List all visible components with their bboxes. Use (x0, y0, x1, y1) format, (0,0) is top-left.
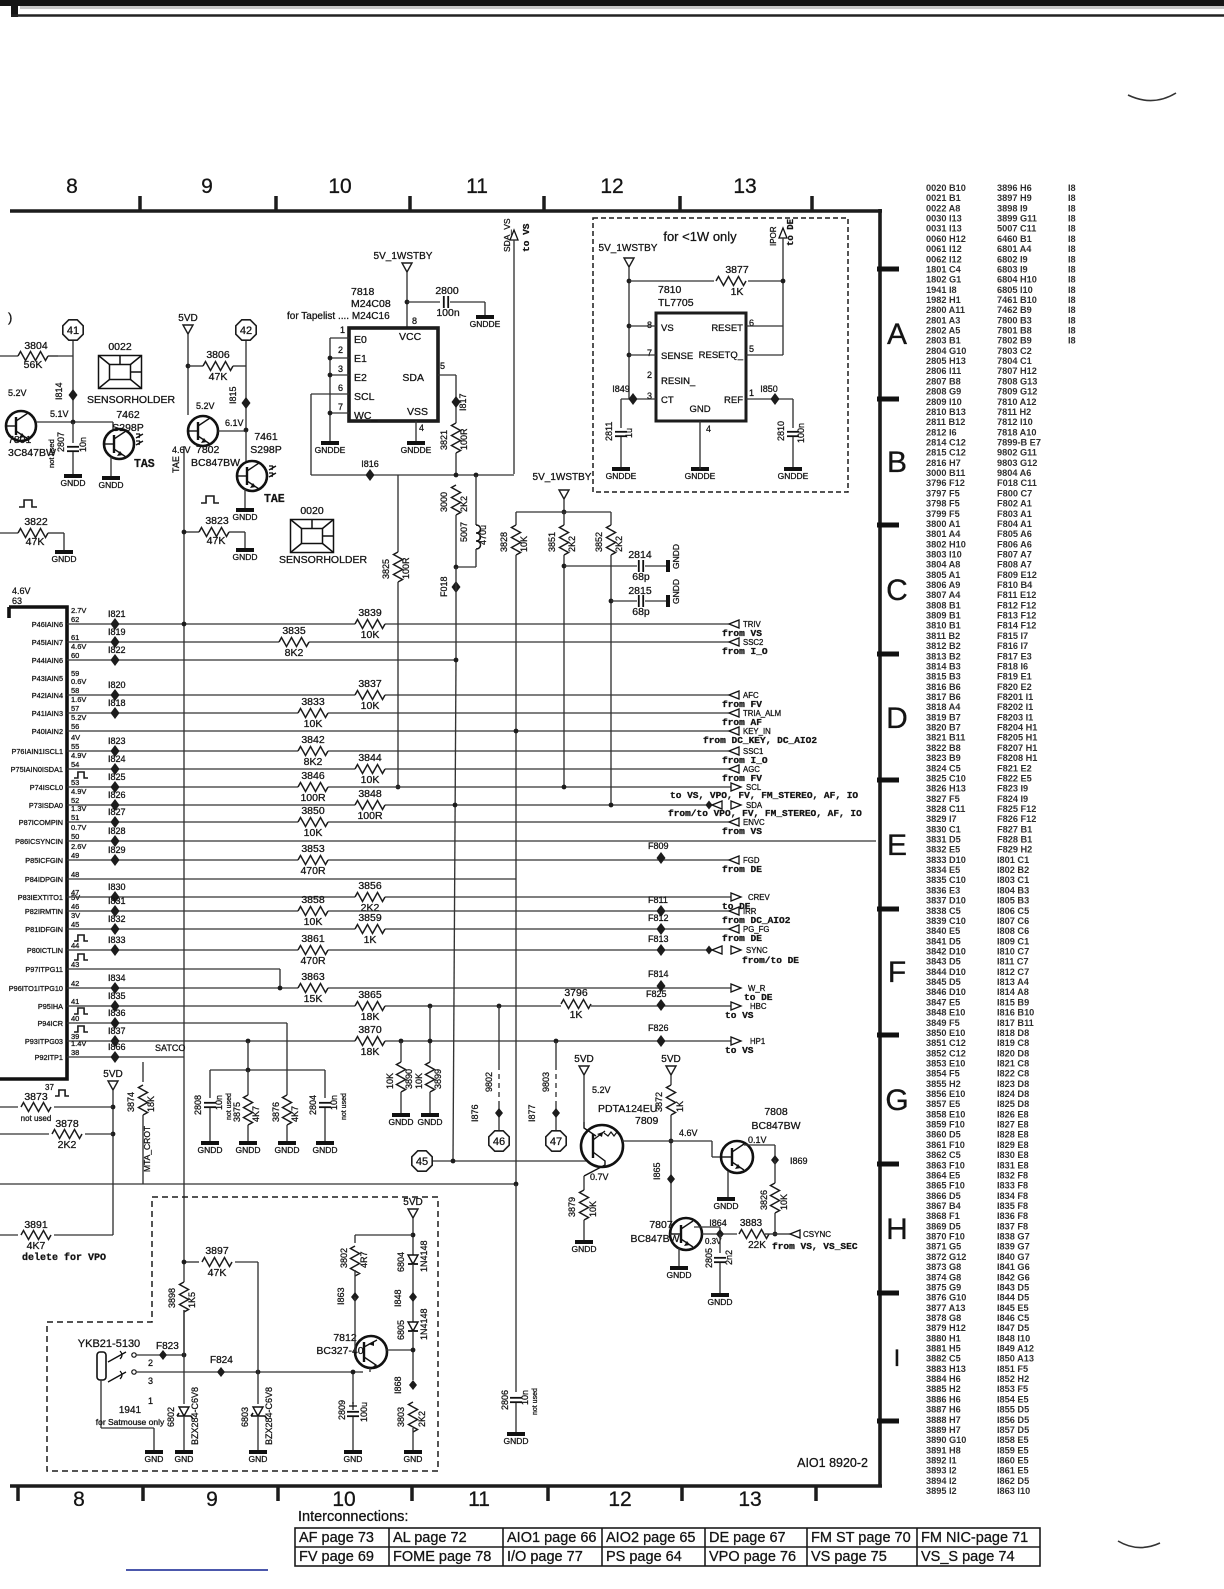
ground GND 6803 (249, 1450, 267, 1454)
svg-text:to VS: to VS (521, 223, 532, 252)
svg-text:GNDD: GNDD (235, 1145, 260, 1155)
svg-text:6: 6 (338, 383, 343, 393)
svg-text:0.7V: 0.7V (71, 823, 86, 832)
svg-text:TAE: TAE (264, 493, 285, 506)
svg-text:8K2: 8K2 (304, 756, 323, 768)
svg-text:1K: 1K (570, 1009, 583, 1021)
ground GNDD TAS (102, 476, 120, 480)
svg-text:BC847BW: BC847BW (191, 457, 240, 469)
ground GNDD 7808 (717, 1197, 735, 1201)
wire pin39 HP1 (67, 1040, 731, 1042)
svg-text:P82IRMTIN: P82IRMTIN (25, 907, 63, 916)
svg-text:FM ST page 70: FM ST page 70 (811, 1530, 911, 1546)
svg-text:5VD: 5VD (403, 1197, 422, 1208)
ground GNDD 2815 (666, 595, 670, 607)
svg-text:22K: 22K (748, 1240, 766, 1251)
svg-text:RESETQ_: RESETQ_ (699, 350, 744, 361)
svg-text:1.6V: 1.6V (71, 695, 86, 704)
svg-text:3851: 3851 (547, 532, 557, 552)
resistor 3826 10K (774, 1160, 776, 1183)
svg-text:S298P: S298P (250, 444, 282, 456)
svg-text:4K7: 4K7 (290, 1106, 300, 1122)
ground GNDD 2804 (316, 1141, 334, 1145)
ruler tick (542, 196, 546, 211)
svg-text:56: 56 (71, 722, 79, 731)
zener 6802 BZX284-C6V8 (179, 1407, 189, 1416)
resistor 3821 100R (451, 423, 462, 453)
arrow ENVC from VS (729, 818, 739, 826)
wire pin55 SSC1 (67, 750, 729, 752)
resistor 3844 10K (355, 764, 385, 775)
svg-text:I864: I864 (709, 1218, 727, 1228)
resistor 3823 47K (184, 531, 199, 533)
svg-text:E1: E1 (354, 353, 367, 365)
inductor 5007 470u (475, 475, 477, 525)
wire 3851 drop (563, 555, 565, 785)
svg-text:REF: REF (724, 395, 743, 406)
svg-text:4: 4 (419, 423, 424, 433)
svg-text:2804: 2804 (308, 1095, 318, 1115)
svg-text:from/to DE: from/to DE (742, 955, 799, 966)
svg-text:P44IAIN6: P44IAIN6 (32, 656, 63, 665)
svg-text:not used: not used (532, 1388, 539, 1415)
svg-text:2815: 2815 (628, 585, 652, 597)
svg-text:4V: 4V (71, 733, 80, 742)
arrow TRIV from VS (729, 620, 739, 628)
svg-text:12: 12 (600, 175, 623, 198)
svg-text:I815: I815 (228, 386, 238, 404)
svg-text:6803: 6803 (240, 1407, 250, 1427)
svg-text:to VS: to VS (725, 1045, 754, 1056)
svg-text:2808: 2808 (193, 1095, 203, 1115)
svg-text:2n2: 2n2 (724, 1250, 734, 1265)
svg-text:I868: I868 (393, 1376, 403, 1394)
svg-text:P87ICOMPIN: P87ICOMPIN (19, 818, 63, 827)
svg-text:4K7: 4K7 (27, 1240, 46, 1252)
power 5VD top (183, 325, 193, 334)
svg-text:68p: 68p (632, 571, 650, 583)
svg-text:from DE: from DE (722, 933, 762, 944)
svg-text:3: 3 (148, 1376, 153, 1386)
svg-text:F814: F814 (648, 969, 669, 979)
cross reference list (926, 183, 1076, 1496)
squiggle mark top right (1128, 93, 1176, 101)
svg-text:4.6V: 4.6V (172, 445, 191, 455)
svg-text:F813: F813 (648, 934, 669, 944)
svg-text:3825: 3825 (381, 559, 391, 579)
svg-text:100n: 100n (436, 307, 460, 319)
svg-text:38: 38 (71, 1048, 79, 1057)
svg-text:I836: I836 (108, 1008, 126, 1018)
svg-text:from DE: from DE (722, 864, 762, 875)
svg-text:4.6V: 4.6V (71, 642, 86, 651)
ground GND jack (145, 1450, 163, 1454)
svg-text:3865: 3865 (358, 989, 382, 1001)
svg-text:I835: I835 (108, 991, 126, 1001)
svg-text:7802: 7802 (196, 444, 220, 456)
svg-text:2810: 2810 (776, 421, 786, 441)
svg-text:3844: 3844 (358, 752, 382, 764)
capacitor 2815 68p (611, 600, 637, 602)
ruler tick (141, 1486, 145, 1501)
svg-text:2807: 2807 (56, 432, 66, 452)
svg-text:10: 10 (332, 1488, 355, 1511)
resistor 3856 2K2 (355, 892, 385, 903)
wire node42 drop (245, 341, 247, 430)
svg-text:GND: GND (404, 1454, 423, 1464)
resistor 3875 4K7 (247, 1070, 249, 1095)
arrow KEY_IN from DC_KEY DC_AIO2 (729, 727, 739, 735)
wire pin54 AGC (67, 768, 729, 770)
wire pin47 CREV (67, 896, 731, 898)
svg-text:SYNC: SYNC (746, 946, 768, 955)
svg-text:I849: I849 (612, 384, 630, 394)
svg-text:I834: I834 (108, 973, 126, 983)
arrow HBC to VS (731, 1002, 741, 1010)
svg-text:GND: GND (175, 1454, 194, 1464)
svg-text:P73ISDA0: P73ISDA0 (29, 801, 63, 810)
svg-text:470u: 470u (478, 525, 488, 545)
svg-text:9803: 9803 (541, 1072, 551, 1092)
grid row tick (877, 1033, 899, 1038)
resistor 3861 470R (298, 945, 328, 956)
svg-text:10K: 10K (304, 827, 323, 839)
svg-text:63: 63 (12, 596, 22, 606)
svg-text:10K: 10K (588, 1201, 598, 1217)
ground GNDDE 2800 (476, 315, 494, 319)
svg-text:5.2V: 5.2V (592, 1085, 611, 1095)
svg-text:I825: I825 (108, 772, 126, 782)
svg-text:to DE: to DE (786, 218, 796, 246)
wire 3828 drop (515, 555, 517, 1184)
svg-text:P81IDFGIN: P81IDFGIN (25, 925, 63, 934)
svg-text:1K: 1K (675, 1101, 685, 1112)
svg-text:3828: 3828 (499, 532, 509, 552)
svg-text:BZX284-C6V8: BZX284-C6V8 (190, 1387, 200, 1445)
ground GNDD 3890 (392, 1113, 410, 1117)
resistor 3873 not used (0, 1106, 18, 1108)
svg-text:46: 46 (493, 1136, 505, 1148)
svg-text:delete for VPO: delete for VPO (22, 1252, 106, 1264)
wire I816 SCL link (310, 394, 312, 475)
svg-text:RESIN_: RESIN_ (661, 376, 696, 387)
top scan black bar (0, 0, 1224, 6)
ruler tick (814, 1486, 818, 1501)
wire pin58 AFC (67, 694, 729, 696)
svg-text:4: 4 (706, 424, 711, 434)
resistor 3850 10K (298, 817, 328, 828)
svg-text:I863: I863 (336, 1287, 346, 1305)
svg-text:2800: 2800 (435, 285, 459, 297)
capacitor 2805 2n2 (719, 1234, 721, 1253)
svg-text:0020: 0020 (300, 505, 324, 517)
svg-text:from I_O: from I_O (722, 646, 768, 657)
zener 6803 BZX284-C6V8 (257, 1372, 259, 1404)
wire 3821 to junction (455, 453, 457, 475)
svg-text:not used: not used (341, 1093, 348, 1120)
resistor 3846 100R (298, 782, 328, 793)
svg-text:RESET: RESET (711, 323, 743, 334)
svg-text:5V_1WSTBY: 5V_1WSTBY (374, 251, 433, 262)
svg-text:C: C (886, 574, 908, 607)
svg-text:GNDDE: GNDDE (401, 445, 432, 455)
svg-text:47K: 47K (209, 371, 228, 383)
transistor 7802 BC847BW (188, 416, 218, 446)
svg-text:I828: I828 (108, 826, 126, 836)
svg-text:3876: 3876 (271, 1102, 281, 1122)
svg-text:56K: 56K (24, 359, 43, 371)
svg-text:47K: 47K (207, 535, 226, 547)
svg-text:10K: 10K (779, 1194, 789, 1210)
arrow SSC2 from I_O (729, 638, 739, 646)
svg-text:F811: F811 (648, 895, 668, 905)
grid row tick (877, 397, 899, 402)
svg-text:E: E (887, 829, 907, 862)
svg-text:GND: GND (689, 404, 710, 415)
svg-text:40: 40 (71, 1014, 79, 1023)
svg-text:from VS, VS_SEC: from VS, VS_SEC (772, 1241, 858, 1252)
svg-text:2806: 2806 (500, 1390, 510, 1410)
grid row tick (877, 907, 899, 912)
svg-text:FV page 69: FV page 69 (299, 1549, 374, 1565)
svg-text:58: 58 (71, 686, 79, 695)
power 5VD 7809 (579, 1066, 589, 1075)
wire pin45 PG_FG (67, 928, 729, 930)
svg-text:6804: 6804 (396, 1252, 406, 1272)
arrow FGD from DE (729, 856, 739, 864)
capacitor 2814 68p (564, 565, 637, 567)
power 5VD 3872 (666, 1066, 676, 1075)
svg-text:GNDD: GNDD (707, 1297, 732, 1307)
svg-text:to VS: to VS (725, 1010, 754, 1021)
svg-text:15K: 15K (304, 993, 323, 1005)
svg-text:P41IAIN3: P41IAIN3 (32, 709, 63, 718)
capacitor 2807 10n not used (72, 422, 74, 443)
arrow AGC from FV (729, 765, 739, 773)
ruler tick (274, 196, 278, 211)
resistor 3851 2K2 (563, 512, 565, 525)
ground GND 3803 (404, 1450, 422, 1454)
svg-text:1u: 1u (624, 428, 634, 438)
svg-text:3846: 3846 (301, 770, 325, 782)
resistor 3802 4R7 (354, 1235, 356, 1243)
wire pin62 TRIV (67, 623, 729, 625)
wire 7812 collector to I868 column (386, 1349, 413, 1351)
svg-text:1: 1 (148, 1396, 153, 1406)
svg-text:P84IDPGIN: P84IDPGIN (25, 875, 63, 884)
wire pin56 KEY_IN (67, 730, 729, 732)
svg-text:CT: CT (661, 395, 674, 406)
svg-text:47K: 47K (26, 536, 45, 548)
wire pin46 IRR (67, 910, 729, 912)
ground GNDD 3876 (278, 1141, 296, 1145)
grid row tick (877, 267, 899, 272)
resistor 3859 1K (355, 924, 385, 935)
svg-text:100u: 100u (359, 1402, 369, 1422)
svg-text:I823: I823 (108, 736, 126, 746)
svg-text:E2: E2 (354, 372, 367, 384)
svg-text:from DC_KEY, DC_AIO2: from DC_KEY, DC_AIO2 (703, 735, 817, 746)
svg-text:1N4148: 1N4148 (419, 1240, 429, 1272)
svg-text:44: 44 (71, 941, 79, 950)
svg-text:3837: 3837 (358, 678, 382, 690)
svg-text:P45IAIN7: P45IAIN7 (32, 638, 63, 647)
arrow TRIA_ALM from AF (729, 709, 739, 717)
bottom ruler line (10, 1484, 882, 1488)
wire pin42 W_R (67, 987, 731, 989)
svg-text:10n: 10n (520, 1390, 530, 1405)
svg-text:3835: 3835 (282, 625, 306, 637)
svg-text:3822: 3822 (24, 516, 48, 528)
svg-text:5V_1WSTBY: 5V_1WSTBY (599, 243, 658, 254)
svg-text:7: 7 (647, 348, 652, 358)
svg-text:4.6V: 4.6V (12, 586, 31, 596)
resistor 3897 47K (184, 1261, 199, 1263)
svg-text:10K: 10K (361, 774, 380, 786)
wire 7812 base from 3802 (354, 1297, 356, 1352)
resistor 3879 10K (579, 1190, 590, 1220)
svg-text:55: 55 (71, 742, 79, 751)
wire 5V to IC left (628, 267, 630, 399)
svg-text:0.6V: 0.6V (71, 677, 86, 686)
wire pin51 ENVC (67, 821, 729, 823)
svg-text:I819: I819 (108, 627, 126, 637)
node I864 (716, 1229, 724, 1239)
ground GNDD 2806 (507, 1432, 525, 1436)
svg-text:GNDDE: GNDDE (606, 471, 637, 481)
wire 7808 collector I869 (744, 1144, 775, 1146)
svg-text:3875: 3875 (232, 1102, 242, 1122)
top thin rule line (11, 14, 1224, 17)
node 41 (63, 320, 83, 340)
svg-text:GNDD: GNDD (713, 1201, 738, 1211)
svg-text:10K: 10K (304, 718, 323, 730)
svg-text:CSYNC: CSYNC (803, 1230, 831, 1239)
svg-text:45: 45 (416, 1156, 428, 1168)
svg-text:I/O page 77: I/O page 77 (507, 1549, 583, 1565)
wire pin49 FGD (67, 859, 729, 861)
node 46 (489, 1131, 509, 1151)
svg-text:49: 49 (71, 851, 79, 860)
svg-text:TAE: TAE (171, 456, 181, 473)
resistor 3891 4K7 delete for VPO (0, 1234, 18, 1236)
svg-text:2: 2 (647, 370, 652, 380)
svg-text:PDTA124EU: PDTA124EU (598, 1103, 657, 1115)
grid row tick (877, 1291, 899, 1296)
svg-text:I821: I821 (108, 609, 126, 619)
svg-text:10K: 10K (361, 700, 380, 712)
svg-text:50: 50 (71, 832, 79, 841)
svg-text:3861: 3861 (301, 933, 325, 945)
svg-text:3899: 3899 (433, 1069, 443, 1089)
svg-text:P42IAIN4: P42IAIN4 (32, 691, 63, 700)
svg-text:8K2: 8K2 (285, 647, 304, 659)
svg-text:5.2V: 5.2V (196, 401, 215, 411)
svg-text:not used: not used (47, 439, 56, 468)
svg-text:GNDD: GNDD (671, 544, 681, 569)
svg-text:3804: 3804 (24, 340, 48, 352)
IC 7810 TL7705 box (656, 313, 746, 421)
svg-text:3870: 3870 (358, 1024, 382, 1036)
svg-text:9: 9 (206, 1488, 218, 1511)
svg-text:1K: 1K (364, 934, 377, 946)
svg-text:10K: 10K (385, 1073, 395, 1089)
svg-text:100n: 100n (796, 423, 806, 443)
ruler tick (410, 1486, 414, 1501)
power 5VD mid (108, 1081, 118, 1090)
grid row tick (877, 523, 899, 528)
svg-text:TAS: TAS (134, 458, 155, 471)
svg-text:4.6V: 4.6V (679, 1128, 698, 1138)
capacitor 2810 100n (792, 399, 794, 428)
svg-text:to VS, VPO, FV, FM_STEREO, AF,: to VS, VPO, FV, FM_STEREO, AF, IO (670, 790, 858, 801)
ruler tick (408, 196, 412, 211)
svg-text:5.2V: 5.2V (8, 388, 27, 398)
svg-text:0022: 0022 (108, 341, 132, 353)
svg-text:3859: 3859 (358, 912, 382, 924)
svg-text:not used: not used (21, 1114, 52, 1123)
svg-text:62: 62 (71, 615, 79, 624)
dashed box satmouse (47, 1197, 438, 1471)
svg-text:I877: I877 (527, 1104, 537, 1122)
wire 2806 drop (515, 1184, 517, 1392)
svg-text:4K7: 4K7 (251, 1106, 261, 1122)
svg-text:13: 13 (733, 175, 756, 198)
svg-text:5V_1WSTBY: 5V_1WSTBY (533, 472, 592, 483)
svg-text:from/to VPO, FV, FM_STEREO, A: from/to VPO, FV, FM_STEREO, AF, IO (668, 808, 862, 819)
svg-text:I817: I817 (458, 393, 468, 411)
svg-text:P86ICSYNCIN: P86ICSYNCIN (15, 837, 63, 846)
svg-text:6802: 6802 (166, 1407, 176, 1427)
svg-text:6.1V: 6.1V (225, 418, 244, 428)
svg-text:1: 1 (340, 325, 345, 335)
resistor 3899 10K (429, 1006, 431, 1062)
svg-text:G: G (885, 1084, 908, 1117)
svg-text:F826: F826 (648, 1023, 669, 1033)
node 42 (236, 320, 256, 340)
svg-text:3858: 3858 (301, 894, 325, 906)
svg-text:42: 42 (71, 979, 79, 988)
svg-text:I822: I822 (108, 645, 126, 655)
wire 5VD drop to 7802 (187, 334, 189, 415)
ground GND 6802 (175, 1450, 193, 1454)
wire node41 drop (72, 341, 74, 422)
svg-text:F825: F825 (646, 989, 667, 999)
svg-text:I866: I866 (108, 1042, 126, 1052)
svg-text:0.7V: 0.7V (590, 1172, 609, 1182)
resistor 3839 10K (355, 619, 385, 630)
svg-text:SATCO: SATCO (155, 1043, 185, 1053)
diode 6805 1N4148 (408, 1322, 418, 1331)
power 5VD satmouse (408, 1209, 418, 1218)
svg-text:IPOR: IPOR (769, 226, 778, 246)
svg-text:H: H (886, 1213, 908, 1246)
resistor 3833 10K (298, 708, 328, 719)
svg-text:GNDD: GNDD (51, 554, 76, 564)
svg-text:YKB21-5130: YKB21-5130 (78, 1338, 140, 1350)
svg-text:7462: 7462 (116, 409, 140, 421)
svg-text:GNDD: GNDD (98, 480, 123, 490)
svg-text:I820: I820 (108, 680, 126, 690)
svg-text:P92ITP1: P92ITP1 (35, 1053, 63, 1062)
svg-text:P85ICFGIN: P85ICFGIN (25, 856, 63, 865)
grid row tick (877, 778, 899, 783)
svg-text:3863: 3863 (301, 971, 325, 983)
ground GNDDE E-bus (321, 441, 339, 445)
svg-text:GND: GND (249, 1454, 268, 1464)
ruler tick (546, 1486, 550, 1501)
svg-text:E0: E0 (354, 334, 367, 346)
